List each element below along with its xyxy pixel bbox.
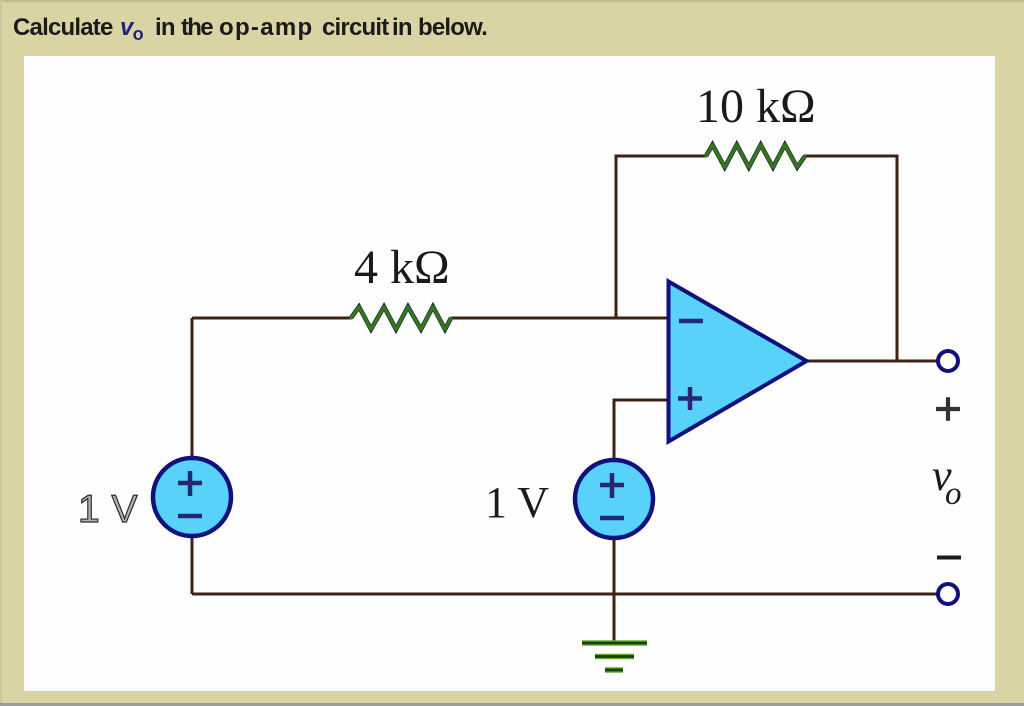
svg-text:10 kΩ: 10 kΩ [696, 80, 816, 133]
svg-text:4 kΩ: 4 kΩ [354, 241, 450, 294]
svg-text:1 V: 1 V [485, 478, 549, 527]
svg-text:o: o [945, 476, 962, 512]
svg-text:1 V: 1 V [78, 488, 138, 531]
